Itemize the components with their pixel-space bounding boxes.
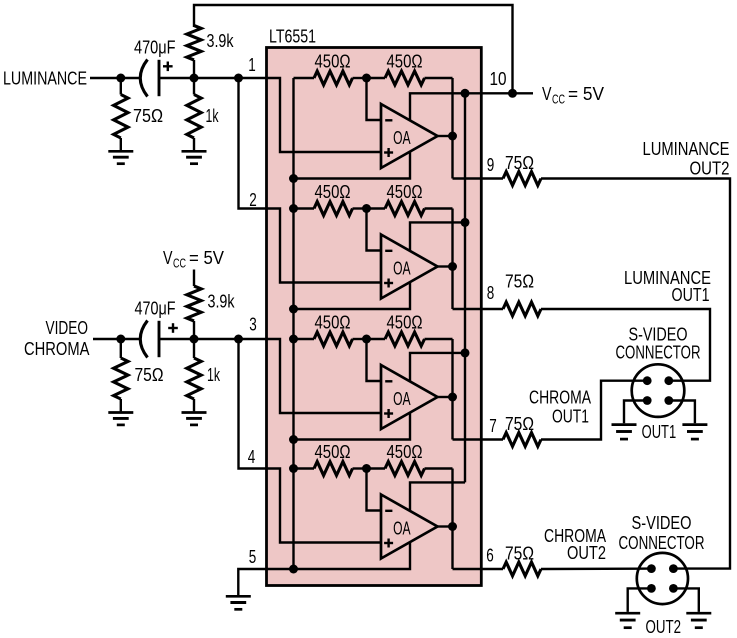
svg-text:470μF: 470μF — [134, 38, 176, 58]
svg-text:LUMINANCE: LUMINANCE — [643, 139, 730, 159]
label VCC = 5V (chroma) — [163, 248, 224, 271]
label VIDEO CHROMA input — [24, 318, 90, 359]
svg-text:OA: OA — [393, 258, 411, 278]
wire V+ tap OA3 — [410, 353, 465, 381]
wire chroma out1 (pin 7 to S-video 1) — [541, 381, 647, 440]
op-amp OA2 — [381, 235, 438, 299]
junction dot output OA2 — [448, 262, 457, 271]
svg-text:450Ω: 450Ω — [315, 313, 351, 333]
svg-text:470μF: 470μF — [135, 298, 176, 318]
junction dot feedback divider OA2 — [362, 204, 371, 213]
junction dot output OA3 — [448, 393, 457, 402]
svg-text:LT6551: LT6551 — [269, 26, 316, 46]
wire output to pin (OA1) — [453, 177, 482, 179]
IC U1 label LT6551 — [269, 26, 316, 46]
junction dot ground rail at cell 3 — [289, 335, 298, 344]
resistor 450Ohm feedback (OA2) — [367, 182, 453, 215]
junction dot ground rail at cell 4 — [289, 464, 298, 473]
IC U1 LT6551 package body — [267, 48, 482, 586]
wire output to pin (OA4) — [453, 568, 482, 570]
connector J1 pins — [643, 376, 673, 405]
label CHROMA OUT1 — [529, 388, 591, 427]
svg-text:CHROMA: CHROMA — [24, 339, 90, 359]
label CHROMA OUT2 — [544, 526, 606, 563]
resistor 75Ohm output (pin 6) — [503, 544, 541, 576]
wire output to pin (OA2) — [453, 308, 482, 310]
svg-text:6: 6 — [486, 546, 494, 566]
junction dot ground rail at pin row 3 — [289, 435, 298, 444]
wire op-amp OA4 output — [438, 525, 453, 527]
junction dot feedback divider OA4 — [362, 464, 371, 473]
svg-text:450Ω: 450Ω — [387, 52, 423, 72]
resistor R3 1k luminance pull-down — [187, 78, 219, 150]
wire pin input to op-amp OA3 non-inverting input — [267, 339, 382, 413]
ground (pin 5) — [226, 596, 251, 609]
wire op-amp OA1 output — [438, 135, 453, 137]
svg-text:75Ω: 75Ω — [505, 153, 534, 173]
junction dot chroma bias node — [190, 335, 199, 344]
junction dot ground rail at pin row 4 — [289, 565, 298, 574]
svg-text:75Ω: 75Ω — [135, 365, 164, 385]
wire pin input to op-amp OA2 non-inverting input — [267, 209, 382, 283]
ground (luminance 1k) — [182, 151, 207, 163]
label S-VIDEO CONNECTOR (J1) — [616, 325, 701, 363]
wire inverting input OA4 — [367, 469, 382, 511]
wire inverting input OA3 — [367, 339, 382, 381]
junction dot luminance bias node — [190, 74, 199, 83]
resistor 450Ohm feedback (OA4) — [367, 442, 453, 475]
svg-text:OUT1: OUT1 — [642, 422, 677, 442]
svg-text:450Ω: 450Ω — [387, 182, 423, 202]
wire luminance input — [90, 77, 141, 79]
ground (luminance 75Ohm) — [108, 151, 133, 163]
resistor R1 75Ohm luminance termination — [114, 78, 163, 150]
label OUT1 (J1) — [642, 422, 677, 442]
wire cap to pin 1 — [159, 77, 267, 79]
wire feedback to output OA3 — [451, 339, 453, 440]
connector J2 pins — [647, 564, 678, 593]
svg-text:75Ω: 75Ω — [505, 414, 534, 434]
svg-text:1k: 1k — [206, 106, 220, 126]
wire ground segment OA4 — [294, 542, 411, 569]
svg-text:75Ω: 75Ω — [505, 272, 534, 292]
S-Video connector J1 body — [632, 364, 685, 417]
wire chroma out2 (pin 6 to S-video 2) — [541, 567, 651, 570]
resistor R4 75Ohm chroma termination — [114, 339, 164, 411]
junction dot feedback divider OA3 — [362, 335, 371, 344]
resistor 450Ohm feedback (OA3) — [367, 313, 453, 346]
svg-text:450Ω: 450Ω — [387, 442, 423, 462]
junction dot pin1/pin2 split — [234, 74, 243, 83]
junction dot VCC rail tap 3 — [461, 348, 470, 357]
wire pin 10 to VCC — [410, 93, 533, 120]
op-amp OA3 — [381, 365, 438, 429]
svg-text:3.9k: 3.9k — [208, 292, 236, 312]
ground (J2 right) — [686, 613, 711, 627]
junction dot ground rail at pin row 2 — [289, 305, 298, 314]
wire V+ tap OA2 — [410, 222, 465, 250]
junction dot VCC rail tap 2 — [461, 218, 470, 227]
svg-text:2: 2 — [249, 190, 257, 210]
junction dot VCC node — [508, 89, 517, 98]
ground (chroma 75Ohm) — [108, 413, 133, 425]
svg-text:450Ω: 450Ω — [315, 182, 351, 202]
ground (J2 left) — [615, 613, 640, 627]
svg-text:7: 7 — [489, 416, 497, 436]
svg-text:CC: CC — [552, 93, 565, 107]
label LUMINANCE input — [3, 68, 87, 88]
svg-text:450Ω: 450Ω — [315, 52, 351, 72]
label LUMINANCE OUT2 — [643, 139, 730, 178]
svg-text:OA: OA — [393, 518, 411, 538]
pin 8 number — [487, 283, 495, 303]
resistor R5 3.9k chroma pull-up — [187, 286, 235, 339]
junction dot output OA4 — [448, 522, 457, 531]
wire inverting input OA1 — [367, 78, 382, 120]
svg-text:= 5V: = 5V — [189, 248, 224, 268]
pin 10 number — [490, 69, 507, 89]
svg-text:OUT2: OUT2 — [646, 617, 682, 637]
svg-text:9: 9 — [487, 155, 495, 175]
label VCC = 5V (top) — [542, 84, 604, 107]
wire op-amp OA2 output — [438, 265, 453, 267]
wire pin input to op-amp OA1 non-inverting input — [267, 78, 382, 152]
wire pin 9 stub — [481, 177, 503, 179]
wire V+ tap OA4 — [410, 482, 465, 510]
internal ground rail (to pin 5) — [292, 78, 294, 569]
junction dot output OA1 — [448, 132, 457, 141]
pin 3 number — [249, 315, 257, 335]
resistor 450Ohm left (OA3) — [294, 313, 367, 346]
wire ground segment OA2 — [294, 282, 411, 309]
svg-text:CC: CC — [173, 257, 186, 271]
wire feedback to output OA4 — [451, 469, 453, 570]
S-Video connector J2 body — [637, 553, 688, 604]
svg-text:OUT1: OUT1 — [672, 285, 710, 305]
wire pin 6 stub — [481, 568, 503, 570]
pin 7 number — [489, 416, 497, 436]
resistor 75Ohm output (pin 9) — [503, 153, 541, 185]
wire pin 7 stub — [481, 438, 503, 440]
capacitor C1 470uF luminance — [134, 38, 176, 97]
wire ground segment OA1 — [294, 152, 411, 179]
wire to pin 4 — [239, 339, 267, 469]
resistor 75Ohm output (pin 7) — [503, 414, 541, 447]
junction dot luminance termination node — [116, 74, 125, 83]
label OUT2 (J2) — [646, 617, 682, 637]
resistor R6 1k chroma pull-down — [187, 339, 221, 411]
wire J1 ground left — [624, 401, 647, 424]
wire luminance out2 (pin 9 to S-video 2) — [541, 179, 730, 569]
junction dot ground rail at pin row 1 — [289, 174, 298, 183]
capacitor C2 470uF chroma — [135, 298, 178, 357]
junction dot ground rail at cell 2 — [289, 204, 298, 213]
wire ground segment OA3 — [294, 413, 411, 440]
resistor 450Ohm left (OA1) — [294, 52, 367, 85]
op-amp OA4 — [381, 495, 438, 559]
wire J2 ground right — [673, 588, 698, 612]
resistor 450Ohm left (OA4) — [294, 442, 367, 475]
pin 2 number — [249, 190, 257, 210]
wire feedback to output OA1 — [451, 78, 453, 179]
ground (chroma 1k) — [182, 413, 207, 425]
pin 4 number — [248, 447, 256, 467]
svg-text:1: 1 — [248, 55, 256, 75]
svg-text:OA: OA — [393, 128, 411, 148]
wire op-amp OA3 output — [438, 396, 453, 398]
svg-text:CHROMA: CHROMA — [529, 388, 591, 408]
svg-text:5: 5 — [249, 547, 257, 567]
wire luminance out1 (pin 8 to S-video 1) — [541, 309, 710, 381]
svg-text:3.9k: 3.9k — [207, 31, 235, 51]
wire J1 ground right — [669, 401, 695, 424]
wire pin 8 stub — [481, 308, 503, 310]
svg-text:8: 8 — [487, 283, 495, 303]
svg-text:450Ω: 450Ω — [315, 442, 351, 462]
label S-VIDEO CONNECTOR (J2) — [619, 513, 705, 553]
internal VCC rail — [464, 93, 466, 482]
wire to pin 2 — [239, 78, 267, 209]
resistor 450Ohm feedback (OA1) — [367, 52, 453, 85]
label LUMINANCE OUT1 — [624, 268, 711, 305]
svg-text:VIDEO: VIDEO — [46, 318, 89, 338]
pin 6 number — [486, 546, 494, 566]
wire chroma input — [93, 338, 141, 340]
wire VCC top rail — [194, 5, 513, 93]
pin 9 number — [487, 155, 495, 175]
svg-text:CONNECTOR: CONNECTOR — [616, 343, 701, 363]
svg-text:4: 4 — [248, 447, 256, 467]
wire feedback to output OA2 — [451, 209, 453, 310]
junction dot internal VCC rail top — [461, 89, 470, 98]
ground (J1 left) — [612, 425, 637, 439]
resistor 75Ohm output (pin 8) — [503, 272, 541, 316]
wire output to pin (OA3) — [453, 438, 482, 440]
junction dot pin3/pin4 split — [234, 335, 243, 344]
svg-text:OA: OA — [393, 389, 411, 409]
svg-text:= 5V: = 5V — [568, 84, 604, 104]
junction dot feedback divider OA1 — [362, 74, 371, 83]
svg-text:OUT2: OUT2 — [567, 543, 606, 563]
svg-text:75Ω: 75Ω — [505, 544, 534, 564]
svg-text:OUT2: OUT2 — [690, 159, 730, 179]
svg-text:V: V — [163, 248, 173, 268]
pin 1 number — [248, 55, 256, 75]
svg-text:S-VIDEO: S-VIDEO — [632, 513, 692, 533]
wire VCC stub to 3.9k — [193, 270, 195, 287]
svg-text:75Ω: 75Ω — [133, 106, 163, 126]
svg-text:LUMINANCE: LUMINANCE — [3, 68, 87, 88]
svg-text:OUT1: OUT1 — [552, 407, 589, 427]
ground (J1 right) — [682, 425, 707, 439]
svg-text:10: 10 — [490, 69, 507, 89]
wire pin 5 to ground — [238, 569, 293, 595]
svg-text:CONNECTOR: CONNECTOR — [619, 533, 705, 553]
svg-text:450Ω: 450Ω — [387, 313, 423, 333]
svg-text:3: 3 — [249, 315, 257, 335]
svg-text:S-VIDEO: S-VIDEO — [629, 325, 688, 345]
wire J2 ground left — [628, 588, 652, 612]
svg-text:V: V — [542, 84, 552, 104]
pin 5 number — [249, 547, 257, 567]
resistor 450Ohm left (OA2) — [294, 182, 367, 215]
resistor R2 3.9k luminance pull-up — [187, 26, 234, 79]
wire pin input to op-amp OA4 non-inverting input — [267, 469, 382, 543]
svg-text:1k: 1k — [207, 365, 221, 385]
wire cap to pin 3 — [159, 338, 267, 340]
op-amp OA1 — [381, 104, 438, 168]
wire inverting input OA2 — [367, 209, 382, 251]
junction dot chroma termination node — [116, 335, 125, 344]
